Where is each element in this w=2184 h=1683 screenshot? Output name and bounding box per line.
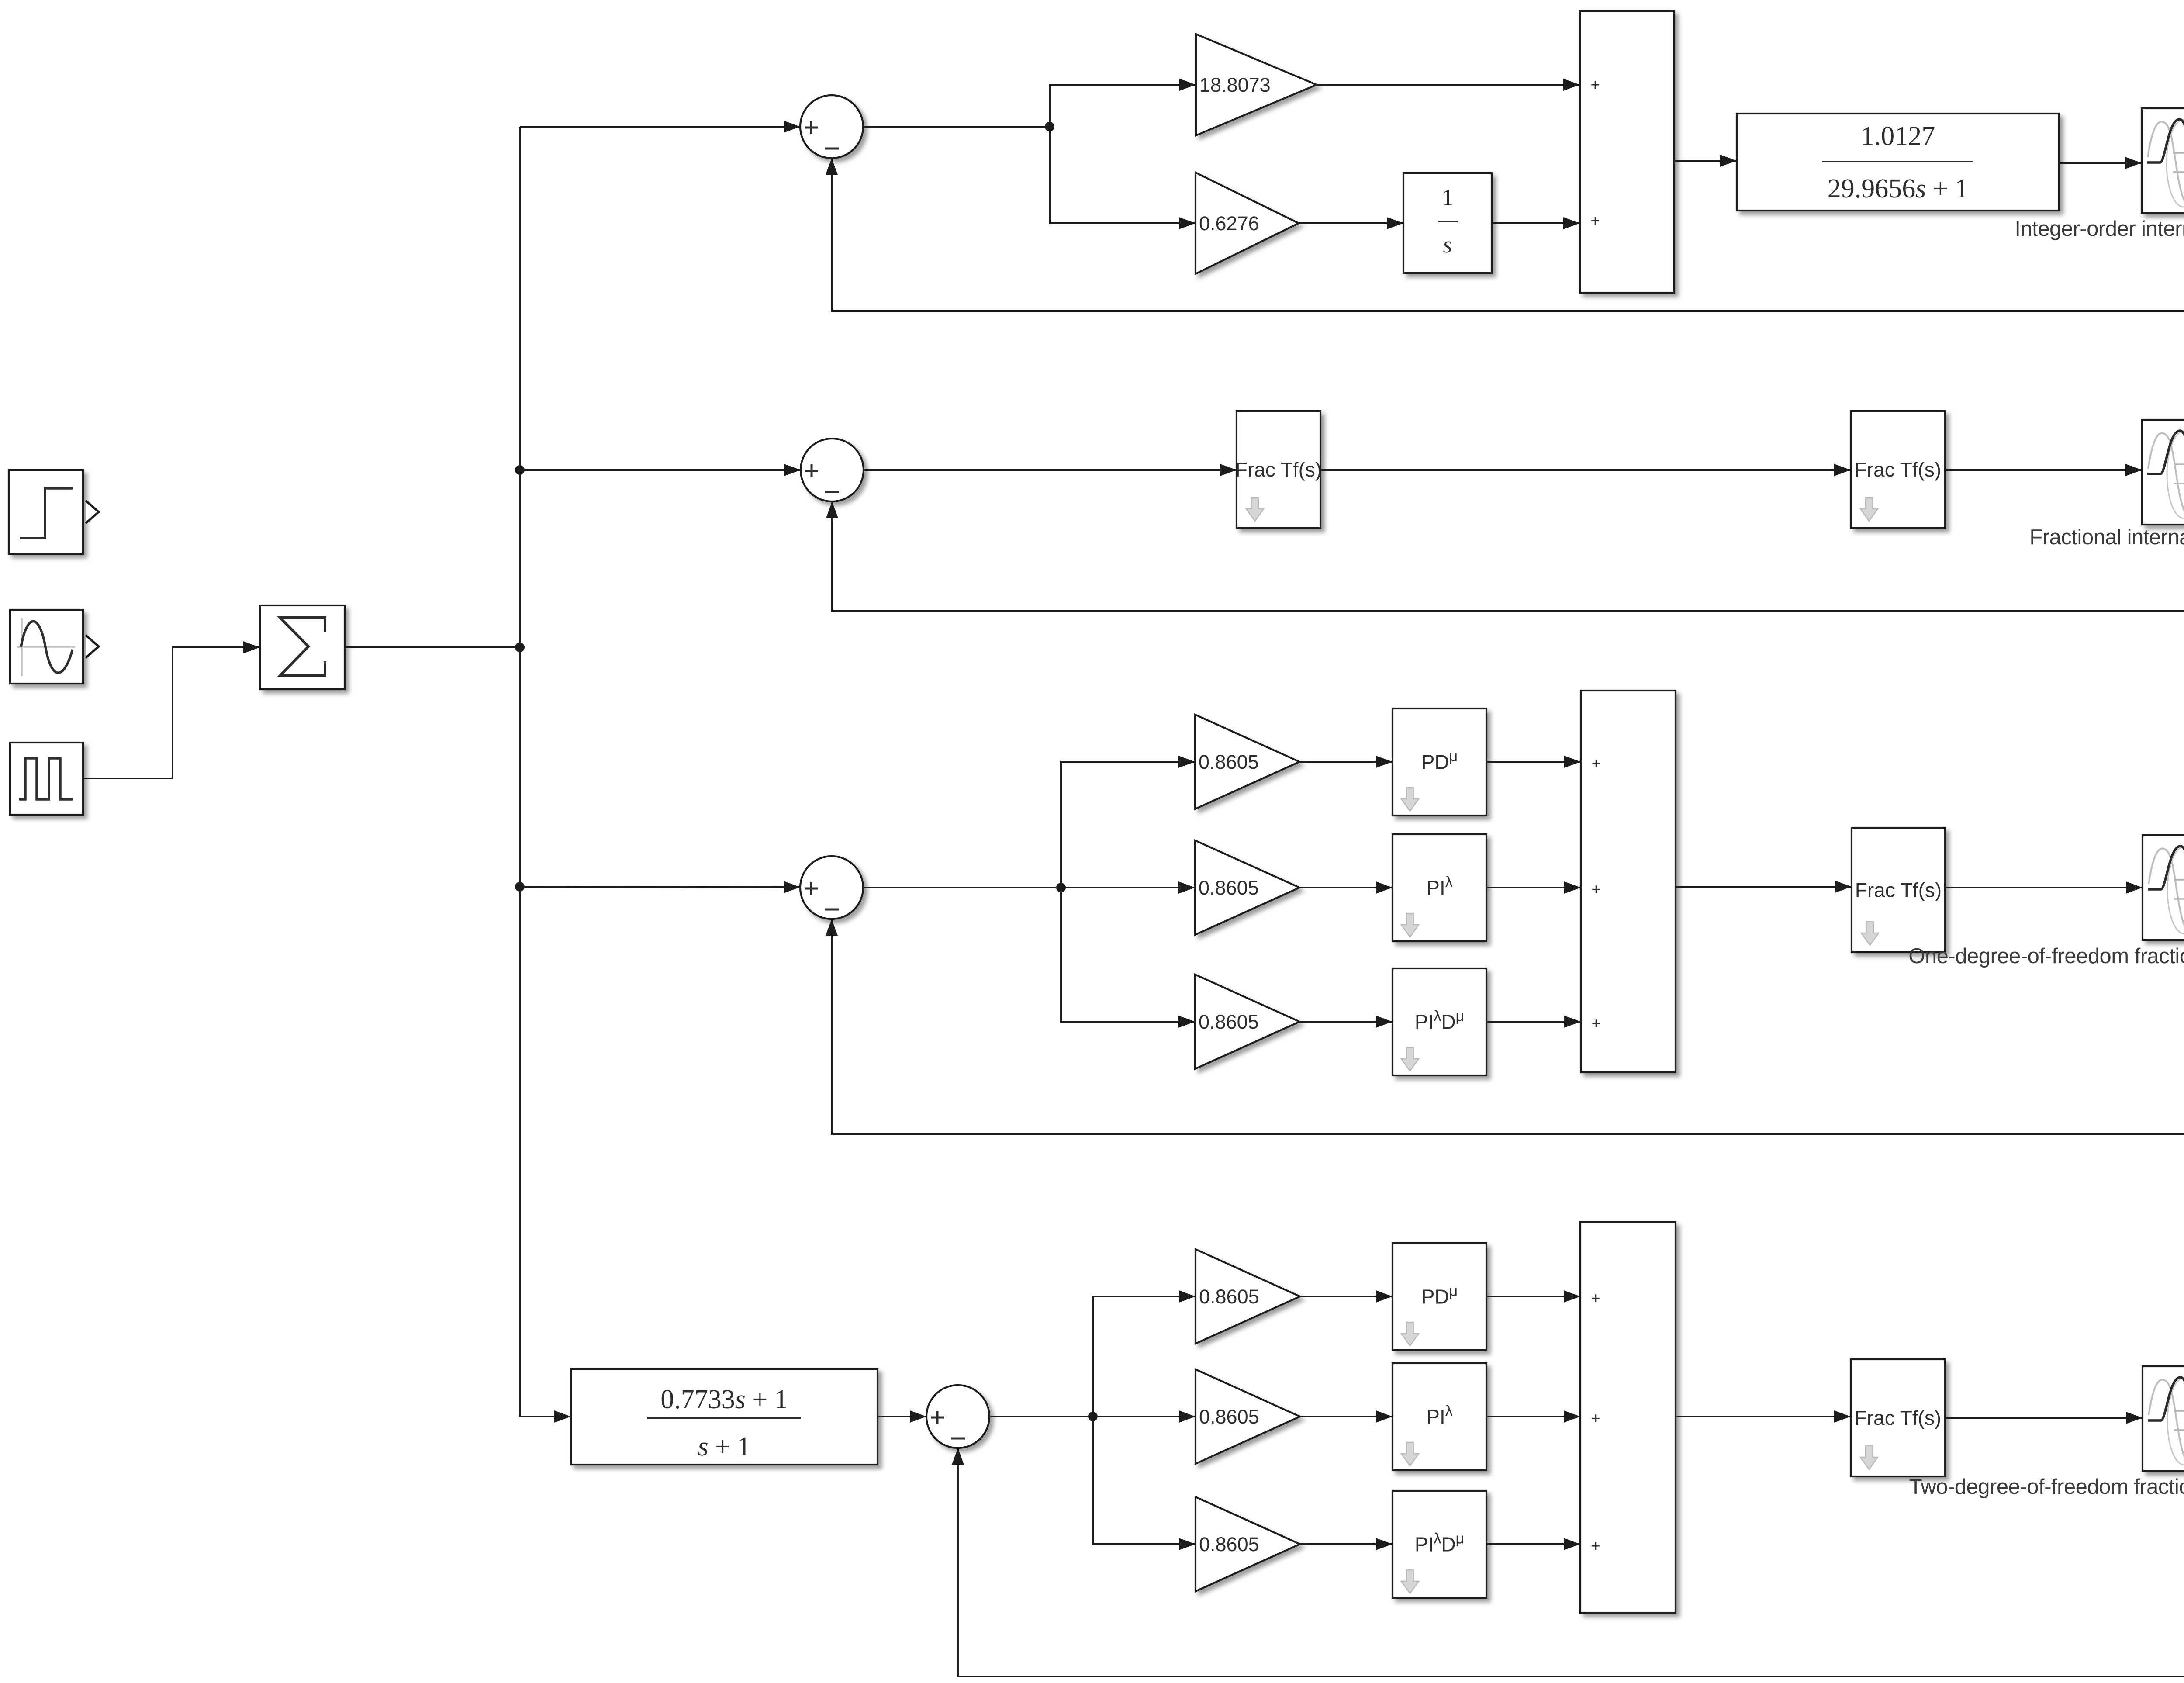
wire C1 to branch	[863, 126, 1050, 128]
PI-lambda block row4	[1393, 1363, 1486, 1470]
label Fractional internal model PI control	[2029, 525, 2184, 549]
wire PD3 to sum S2	[1486, 756, 1581, 768]
transfer function TF2 (0.7733s+1)/(s+1)	[571, 1369, 878, 1465]
step source block	[9, 470, 99, 554]
wire S3 to F4	[1676, 1410, 1851, 1423]
svg-text:s: s	[1443, 232, 1452, 258]
wire PID4 to sum S3	[1486, 1538, 1580, 1550]
trunk junction row3	[515, 882, 525, 892]
wire branch to gain G5	[1061, 888, 1195, 1028]
wire PD4 to sum S3	[1486, 1290, 1580, 1303]
wire G1 to sum S1	[1317, 79, 1580, 91]
wire branch to gain G3	[1061, 756, 1195, 888]
svg-text:+: +	[1591, 880, 1600, 898]
wire trunk to sum circle C1	[520, 121, 800, 133]
svg-text:Fractional internal model PI c: Fractional internal model PI control	[2029, 525, 2184, 549]
sum circle C2	[801, 439, 864, 501]
wire F4 to icon SI4	[1945, 1412, 2143, 1424]
wire PI3 to sum S2	[1486, 881, 1581, 894]
PD-mu block row4	[1393, 1243, 1486, 1350]
wire branch to gain G4	[1061, 881, 1195, 894]
svg-text:+: +	[1591, 1014, 1600, 1032]
wire G3 to PD3	[1299, 756, 1393, 768]
feedback wire row2	[826, 471, 2184, 611]
feedback wire row3	[826, 889, 2184, 1134]
gain G7 0.8605	[1196, 1369, 1300, 1464]
svg-text:Frac Tf(s): Frac Tf(s)	[1855, 1407, 1941, 1429]
svg-text:1: 1	[1442, 184, 1454, 211]
trunk junction sum-in	[515, 643, 525, 652]
wire trunk to TF2	[520, 1410, 571, 1423]
wire C3 to branch	[863, 887, 1061, 888]
label Two-degree-of-freedom fractional-order internal model control	[1909, 1475, 2184, 1499]
sum block S2	[1581, 691, 1676, 1072]
gain G6 0.8605	[1196, 1249, 1300, 1344]
wire G7 to PI4	[1300, 1410, 1393, 1423]
wire branch to gain G1	[1050, 79, 1196, 127]
wire F3 to icon SI3	[1945, 881, 2143, 894]
label Integer-order internal mode PI control	[2015, 217, 2184, 241]
branch dot row4	[1088, 1412, 1098, 1421]
svg-text:One-degree-of-freedom fraction: One-degree-of-freedom fractional-order i…	[1908, 944, 2184, 968]
wire branch to gain G8	[1093, 1417, 1196, 1550]
wire S1 to TF1	[1674, 155, 1737, 167]
svg-text:Integer-order internal mode PI: Integer-order internal mode PI control	[2015, 217, 2184, 241]
svg-text:0.8605: 0.8605	[1199, 877, 1259, 899]
gain G8 0.8605	[1196, 1497, 1300, 1591]
gain G3 0.8605	[1195, 715, 1299, 809]
integrator block 1/s	[1403, 173, 1492, 273]
svg-text:Frac Tf(s): Frac Tf(s)	[1855, 458, 1941, 481]
wire branch to gain G6	[1093, 1290, 1196, 1417]
trunk junction row2	[515, 465, 525, 475]
svg-text:+: +	[1591, 754, 1600, 772]
svg-text:Frac Tf(s): Frac Tf(s)	[1855, 879, 1942, 902]
gain G2 0.6276	[1196, 173, 1299, 274]
approximation icon block SI4	[2143, 1366, 2184, 1471]
pulse generator source block	[10, 743, 83, 815]
wire F1 to F2	[1320, 464, 1851, 476]
sum block S1	[1580, 11, 1674, 293]
svg-text:0.8605: 0.8605	[1199, 1011, 1259, 1033]
svg-text:+: +	[1591, 1409, 1600, 1427]
approximation icon block SI1	[2142, 108, 2184, 213]
svg-text:Two-degree-of-freedom fraction: Two-degree-of-freedom fractional-order i…	[1909, 1475, 2184, 1499]
wire TF1 to icon SI1	[2059, 157, 2142, 169]
approximation icon block SI3	[2143, 835, 2184, 940]
wire pulse to sum	[83, 641, 260, 778]
Frac Tf(s) block F4	[1851, 1359, 1945, 1476]
wire integrator to sum S1	[1492, 217, 1580, 229]
gain G5 0.8605	[1195, 975, 1299, 1069]
wire G4 to PI3	[1299, 881, 1393, 894]
wire PI4 to sum S3	[1486, 1410, 1580, 1423]
wire C2 to F1	[864, 464, 1237, 476]
svg-text:0.6276: 0.6276	[1199, 212, 1259, 235]
wire branch to gain G2	[1050, 127, 1196, 229]
svg-text:+: +	[1591, 1537, 1600, 1555]
svg-text:0.7733s + 1: 0.7733s + 1	[660, 1385, 788, 1414]
wire sum to trunk	[345, 646, 520, 648]
branch dot row1	[1045, 122, 1054, 131]
sum circle C3	[800, 856, 863, 919]
wire F2 to icon SI2	[1945, 464, 2142, 476]
wire branch to gain G7	[1093, 1410, 1196, 1423]
wire trunk to sum circle C2	[520, 464, 801, 476]
wire TF2 to sum circle C4	[878, 1410, 926, 1423]
svg-text:1.0127: 1.0127	[1861, 121, 1935, 151]
svg-text:18.8073: 18.8073	[1199, 74, 1271, 96]
PI-lambda block row3	[1393, 834, 1486, 941]
feedback wire row1	[826, 158, 2184, 311]
sum circle C4	[926, 1385, 989, 1448]
gain G4 0.8605	[1195, 840, 1299, 935]
sum block (sigma)	[260, 605, 345, 689]
wire S2 to F3	[1676, 881, 1852, 893]
Frac Tf(s) block F2	[1851, 411, 1945, 528]
svg-text:29.9656s + 1: 29.9656s + 1	[1828, 174, 1969, 204]
sum circle C1	[800, 95, 863, 158]
label One-degree-of-freedom fractional-order internal model control	[1908, 944, 2184, 968]
feedback wire row4	[952, 1419, 2184, 1676]
PI-lambda-D-mu block row4	[1393, 1491, 1486, 1598]
gain G1 18.8073	[1196, 34, 1317, 135]
wire PID3 to sum S2	[1486, 1016, 1581, 1028]
wire G2 to integrator	[1299, 217, 1403, 229]
Frac Tf(s) block F1	[1235, 411, 1322, 528]
wire G8 to PID4	[1300, 1538, 1393, 1550]
PD-mu block row3	[1393, 708, 1486, 816]
transfer function TF1 1.0127/(29.9656s+1)	[1737, 114, 2059, 211]
branch dot row3	[1056, 883, 1066, 892]
wire C4 to branch	[989, 1416, 1093, 1417]
trunk vertical wire	[519, 127, 521, 1417]
sine wave source block	[10, 610, 99, 684]
svg-text:+: +	[1590, 211, 1600, 229]
PI-lambda-D-mu block row3	[1393, 968, 1486, 1075]
svg-text:+: +	[1591, 1289, 1600, 1307]
svg-text:+: +	[1590, 76, 1600, 93]
svg-text:s + 1: s + 1	[698, 1432, 750, 1462]
wire G5 to PID3	[1299, 1016, 1393, 1028]
Frac Tf(s) block F3	[1852, 828, 1945, 952]
wire G6 to PD4	[1300, 1290, 1393, 1303]
approximation icon block SI2	[2142, 420, 2184, 525]
svg-text:0.8605: 0.8605	[1199, 1286, 1259, 1308]
wire trunk to sum circle C3	[520, 881, 800, 893]
svg-text:0.8605: 0.8605	[1199, 1533, 1259, 1555]
svg-text:0.8605: 0.8605	[1199, 751, 1259, 773]
sum block S3	[1580, 1222, 1676, 1613]
svg-text:0.8605: 0.8605	[1199, 1406, 1259, 1428]
svg-text:Frac Tf(s): Frac Tf(s)	[1235, 458, 1322, 481]
